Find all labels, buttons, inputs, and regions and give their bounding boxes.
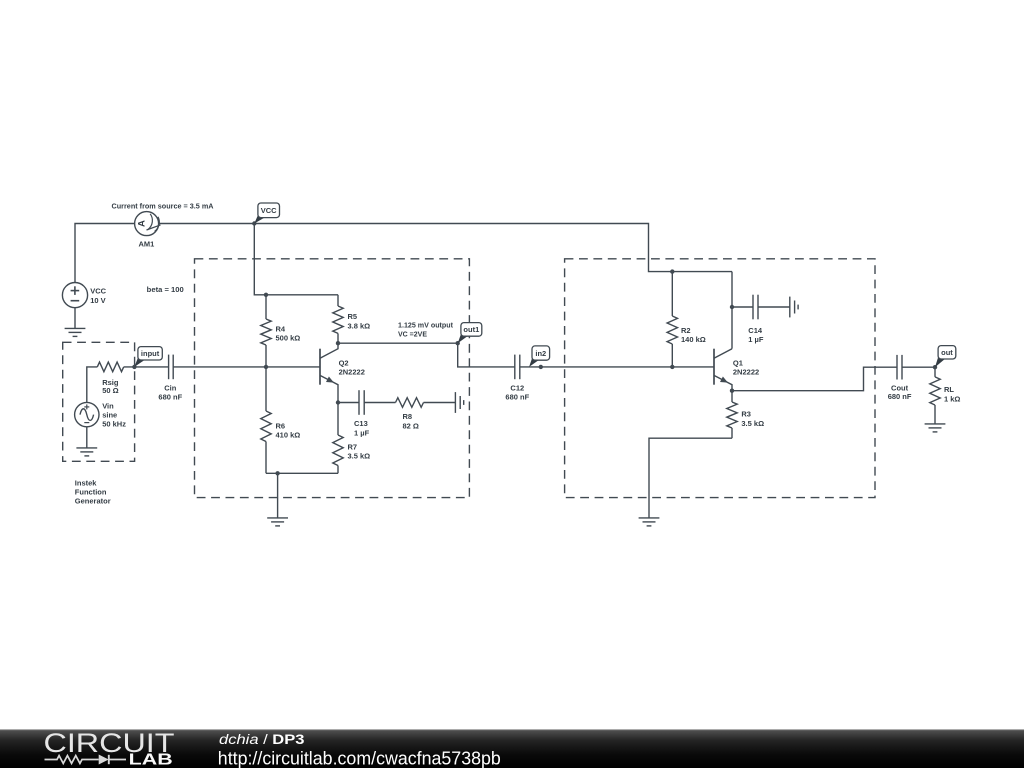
svg-text:RL: RL: [944, 385, 954, 394]
svg-text:410 kΩ: 410 kΩ: [276, 431, 301, 440]
svg-text:2N2222: 2N2222: [733, 368, 759, 377]
svg-text:R7: R7: [348, 442, 358, 451]
svg-text:R2: R2: [681, 326, 691, 335]
svg-text:in2: in2: [535, 349, 546, 358]
svg-text:Function: Function: [75, 488, 107, 497]
svg-text:3.5 kΩ: 3.5 kΩ: [741, 419, 764, 428]
svg-text:LAB: LAB: [129, 752, 173, 768]
svg-text:1 µF: 1 µF: [354, 429, 370, 438]
svg-text:140 kΩ: 140 kΩ: [681, 335, 706, 344]
svg-text:1 µF: 1 µF: [748, 335, 764, 344]
svg-text:beta = 100: beta = 100: [147, 285, 184, 294]
svg-text:R6: R6: [276, 421, 286, 430]
svg-text:Cout: Cout: [891, 383, 909, 392]
svg-text:10 V: 10 V: [90, 296, 105, 305]
svg-text:50 kHz: 50 kHz: [102, 419, 126, 428]
svg-text:1 kΩ: 1 kΩ: [944, 394, 960, 403]
svg-text:Generator: Generator: [75, 497, 111, 506]
svg-text:out1: out1: [463, 325, 479, 334]
svg-text:R3: R3: [741, 410, 751, 419]
svg-text:A: A: [137, 220, 148, 227]
svg-text:R4: R4: [276, 324, 286, 333]
svg-text:VC =2VE: VC =2VE: [398, 330, 427, 339]
svg-text:500 kΩ: 500 kΩ: [276, 334, 301, 343]
svg-text:680 nF: 680 nF: [505, 393, 529, 402]
svg-text:3.8 kΩ: 3.8 kΩ: [348, 321, 371, 330]
svg-text:C14: C14: [748, 326, 763, 335]
svg-text:2N2222: 2N2222: [339, 368, 365, 377]
svg-text:3.5 kΩ: 3.5 kΩ: [348, 452, 371, 461]
svg-text:AM1: AM1: [139, 240, 155, 249]
svg-text:50 Ω: 50 Ω: [102, 386, 118, 395]
svg-text:C13: C13: [354, 419, 368, 428]
svg-text:http://circuitlab.com/cwacfna5: http://circuitlab.com/cwacfna5738pb: [218, 748, 501, 768]
svg-text:82 Ω: 82 Ω: [403, 421, 419, 430]
svg-text:Q1: Q1: [733, 358, 743, 367]
svg-text:C12: C12: [510, 383, 524, 392]
svg-text:VCC: VCC: [261, 206, 277, 215]
svg-text:sine: sine: [102, 411, 117, 420]
svg-text:input: input: [141, 349, 160, 358]
svg-text:680 nF: 680 nF: [158, 392, 182, 401]
svg-text:R8: R8: [403, 412, 413, 421]
svg-text:out: out: [941, 348, 953, 357]
svg-text:680 nF: 680 nF: [888, 392, 912, 401]
svg-text:Vin: Vin: [102, 402, 114, 411]
svg-text:Cin: Cin: [164, 384, 177, 393]
svg-text:Current from source = 3.5 mA: Current from source = 3.5 mA: [112, 201, 215, 210]
svg-text:Instek: Instek: [75, 479, 98, 488]
svg-text:Q2: Q2: [339, 358, 349, 367]
svg-text:dchia / DP3: dchia / DP3: [219, 732, 305, 748]
svg-text:VCC: VCC: [90, 287, 106, 296]
svg-text:R5: R5: [348, 312, 358, 321]
svg-text:1.125 mV output: 1.125 mV output: [398, 321, 453, 330]
